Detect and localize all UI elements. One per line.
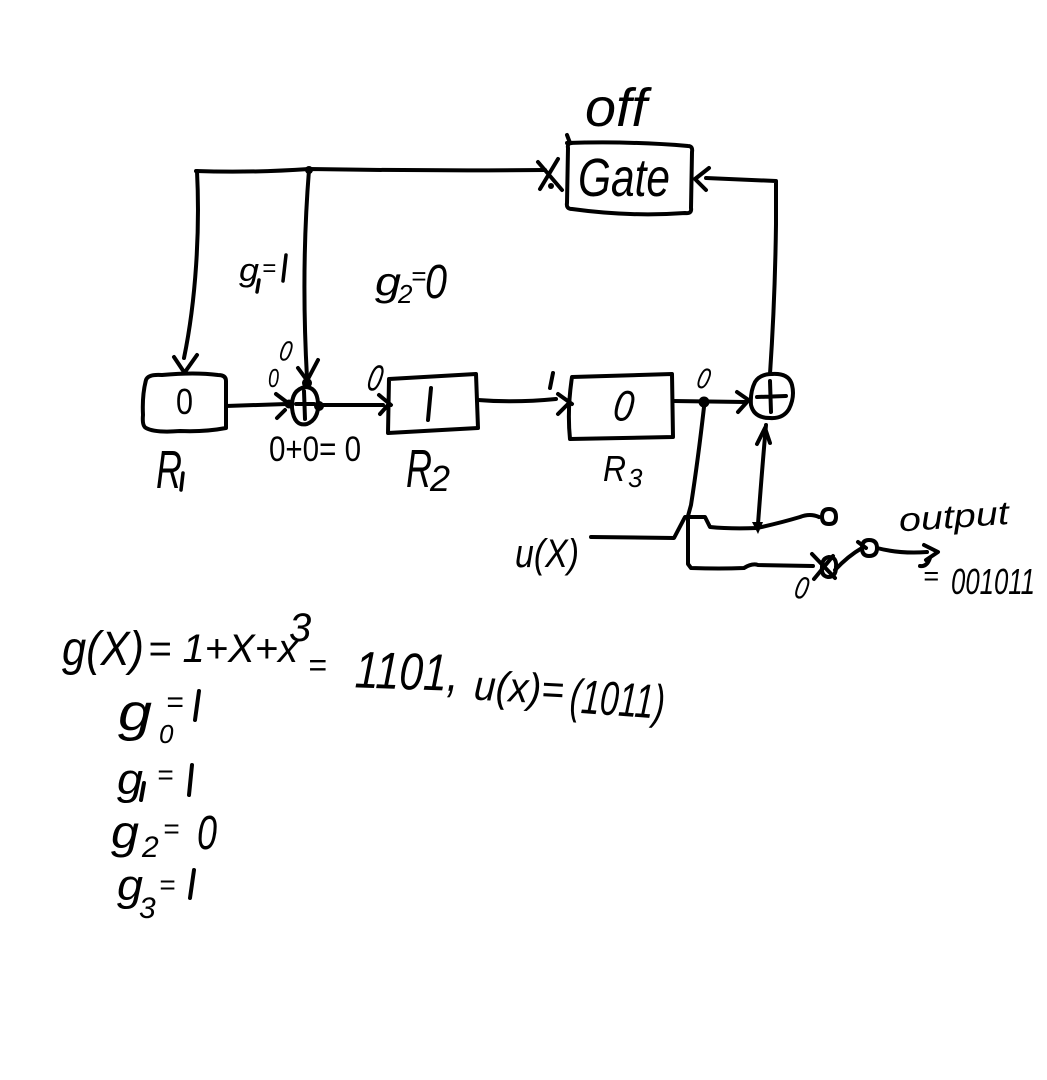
arrowhead into gate right	[695, 168, 709, 190]
svg-text:=: =	[411, 261, 426, 291]
node dot between R3 and adder	[699, 397, 710, 408]
svg-text:g(X): g(X)	[62, 623, 144, 676]
register R2 box	[388, 374, 478, 433]
svg-text:u(X): u(X)	[515, 532, 579, 576]
svg-text:= 1+X+x: = 1+X+x	[148, 627, 300, 671]
svg-text:0: 0	[425, 256, 447, 309]
svg-text:=: =	[262, 255, 276, 282]
wire pole to output with arrowhead	[877, 548, 927, 553]
svg-text:R: R	[603, 448, 626, 489]
wire R3 to adder	[673, 401, 745, 402]
junction dot on feedback wire	[305, 166, 313, 174]
svg-text:g: g	[111, 806, 139, 858]
down arrowhead at u(X)/adder-line junction	[752, 522, 763, 534]
wire: feedback left branch down to R1	[184, 171, 198, 358]
XOR adder circle	[292, 387, 318, 424]
wire: top feedback horizontal	[196, 169, 545, 172]
lower switch contact circle with cross	[822, 557, 836, 577]
label g2=0	[375, 256, 447, 309]
equation g3=1	[117, 861, 194, 925]
arrowhead into R3	[558, 394, 572, 414]
label g1=1	[239, 252, 286, 292]
X mark on gate left input	[538, 159, 562, 190]
svg-text:=: =	[163, 813, 179, 844]
junction dot near X	[548, 183, 554, 189]
label R1	[156, 440, 183, 500]
wire node down to lower switch contact	[688, 407, 813, 569]
svg-text:g: g	[118, 684, 152, 742]
svg-text:R: R	[156, 440, 182, 500]
svg-text:3: 3	[628, 463, 643, 493]
svg-text:0: 0	[268, 363, 279, 393]
svg-text:001011: 001011	[951, 561, 1035, 602]
wire lower contact to pole	[835, 548, 862, 570]
svg-text:=: =	[308, 647, 327, 683]
wire R2 to R3	[478, 399, 556, 401]
equation g(X)=1+X+x^3 = 1101, u(x)=(1011)	[62, 606, 667, 730]
equation g1=1	[117, 755, 192, 804]
arrowhead into XOR left	[276, 394, 288, 418]
label = 001011	[923, 561, 1035, 602]
svg-text:3: 3	[139, 892, 156, 925]
svg-text:=: =	[159, 869, 175, 900]
svg-text:output: output	[898, 494, 1013, 539]
switch pole circle	[862, 540, 877, 556]
output adder circle	[751, 374, 793, 418]
R2 value 1	[428, 388, 431, 420]
wire adder top up to gate right	[706, 178, 776, 374]
svg-text:=: =	[166, 686, 184, 719]
adder plus sign	[757, 381, 786, 412]
junction blob atop XOR	[302, 378, 312, 388]
svg-text:2: 2	[429, 458, 450, 499]
svg-text:0+0= 0: 0+0= 0	[269, 430, 361, 469]
register R3 box	[569, 374, 673, 439]
svg-text:Gate: Gate	[578, 148, 670, 208]
svg-text:u(x)=: u(x)=	[473, 662, 565, 714]
label 1 before R3	[550, 373, 553, 388]
wire XOR to R2	[319, 403, 383, 407]
wire R1 to XOR	[226, 404, 287, 406]
arrowhead up into adder bottom	[757, 428, 770, 444]
upper switch contact circle	[822, 509, 836, 524]
arrowhead into R2	[379, 395, 391, 414]
svg-text:1101,: 1101,	[354, 641, 460, 703]
svg-text:=: =	[157, 759, 173, 790]
svg-text:R: R	[406, 439, 432, 499]
wire u(X) to upper switch contact	[591, 515, 819, 538]
register R1 box	[143, 374, 226, 432]
XOR plus sign	[296, 391, 314, 419]
svg-text:3: 3	[289, 606, 311, 650]
wire: feedback junction down to XOR	[304, 170, 309, 378]
svg-text:0: 0	[159, 719, 174, 749]
XOR output blob	[314, 401, 324, 411]
arrowhead into XOR top	[298, 360, 318, 379]
label R3	[603, 448, 643, 493]
svg-text:g: g	[239, 252, 259, 288]
svg-text:0: 0	[176, 381, 193, 422]
svg-text:2: 2	[141, 831, 159, 864]
svg-text:off: off	[585, 78, 652, 138]
wire adder bottom down to switch junction	[758, 425, 766, 524]
arrowhead into R1 top	[174, 355, 197, 372]
label R2	[406, 439, 450, 499]
svg-text:(1011): (1011)	[568, 670, 666, 729]
gate box U1	[567, 135, 692, 214]
equation g2=0	[111, 806, 217, 864]
svg-text:0: 0	[197, 807, 217, 860]
equation g0=1	[118, 684, 199, 749]
svg-text:=: =	[923, 561, 939, 591]
arrowhead into adder left	[737, 392, 750, 412]
arrow tick into pole	[858, 542, 866, 548]
